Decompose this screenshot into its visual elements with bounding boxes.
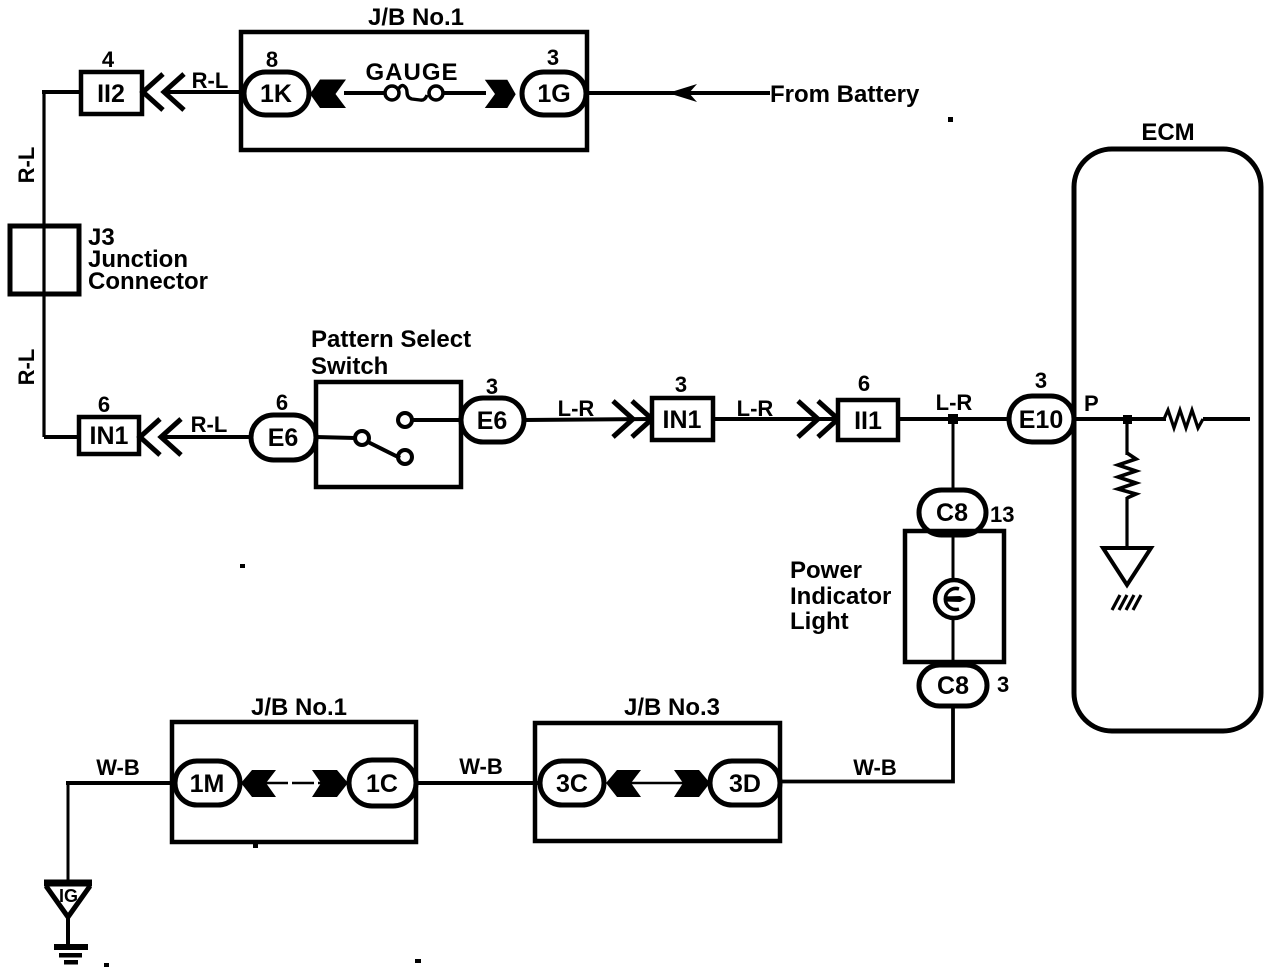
svg-text:L-R: L-R	[558, 396, 595, 421]
ground IG triangle	[44, 880, 92, 887]
switch contact upper	[398, 413, 412, 427]
svg-text:IG: IG	[59, 886, 78, 906]
wire fuse to arrow	[443, 91, 486, 95]
connector IN1 (middle)	[652, 398, 713, 440]
solid arrow left in J/B No.3	[606, 770, 641, 797]
node inside ECM	[1123, 415, 1132, 424]
svg-text:From Battery: From Battery	[770, 81, 920, 108]
wire junction down to C8	[952, 419, 955, 492]
power indicator light box	[905, 531, 1004, 662]
svg-text:3: 3	[1035, 368, 1047, 393]
wire lamp to C8	[952, 617, 955, 667]
female chevrons at II2	[143, 74, 163, 110]
svg-text:8: 8	[266, 47, 278, 72]
male chevrons into II1	[798, 401, 818, 437]
svg-text:6: 6	[98, 392, 110, 417]
svg-text:1M: 1M	[190, 770, 225, 798]
scan specks	[948, 117, 953, 122]
svg-text:GAUGE: GAUGE	[365, 59, 458, 86]
ground triangle in ECM	[1103, 548, 1151, 585]
svg-text:3D: 3D	[729, 770, 761, 798]
svg-text:4: 4	[102, 47, 115, 72]
svg-text:Switch: Switch	[311, 353, 388, 380]
svg-text:Connector: Connector	[88, 268, 208, 295]
switch common wire	[316, 437, 355, 438]
svg-text:3: 3	[547, 45, 559, 70]
svg-text:W-B: W-B	[96, 755, 140, 780]
wire down to IG ground	[67, 783, 70, 883]
svg-text:1C: 1C	[366, 770, 398, 798]
svg-text:Light: Light	[790, 608, 849, 635]
svg-text:3C: 3C	[556, 770, 588, 798]
terminal C8 (pin 13)	[919, 490, 986, 535]
svg-text:R-L: R-L	[14, 349, 39, 386]
svg-text:R-L: R-L	[192, 68, 229, 93]
svg-text:L-R: L-R	[936, 390, 973, 415]
terminal E6 (left)	[251, 415, 316, 460]
svg-text:R-L: R-L	[191, 412, 228, 437]
solid arrow right in J/B No.3	[674, 770, 710, 797]
terminal 1C	[349, 760, 416, 806]
wire R-L II2 to 1K	[166, 90, 246, 94]
wire ground to 1M	[66, 781, 176, 785]
terminal E6 (right)	[461, 398, 524, 442]
indicator lamp	[935, 580, 973, 618]
terminal E10	[1009, 396, 1074, 442]
pattern select switch box	[316, 382, 461, 487]
solid arrow left (to 1K)	[310, 80, 346, 109]
svg-text:Indicator: Indicator	[790, 583, 891, 610]
solid arrow right in J/B No.1	[312, 770, 348, 797]
svg-text:6: 6	[858, 371, 870, 396]
solid arrow right (to 1G)	[485, 80, 516, 108]
wire inside ECM	[1074, 417, 1166, 421]
svg-text:3: 3	[675, 372, 687, 397]
svg-text:E10: E10	[1019, 406, 1063, 434]
connector IN1 (left)	[79, 417, 139, 454]
terminal C8 (pin 3)	[919, 665, 987, 706]
svg-text:W-B: W-B	[853, 755, 897, 780]
svg-text:Power: Power	[790, 557, 862, 584]
wire to battery feed	[586, 91, 770, 95]
svg-text:II2: II2	[97, 80, 125, 108]
wire W-B 1C to 3C	[416, 781, 542, 785]
resistor horizontal in ECM	[1164, 410, 1203, 428]
wire to fuse	[344, 91, 386, 95]
terminal 3D	[710, 761, 780, 805]
svg-text:C8: C8	[936, 499, 968, 527]
svg-text:P: P	[1084, 391, 1099, 416]
male chevrons into IN1	[613, 401, 633, 437]
link wire	[630, 782, 684, 785]
resistor vertical in ECM	[1118, 453, 1136, 498]
switch output wire	[412, 418, 461, 422]
terminal 3C	[540, 761, 604, 805]
J/B No.1 (bottom) box	[172, 722, 416, 842]
svg-text:W-B: W-B	[459, 754, 503, 779]
terminal 1M	[175, 761, 240, 805]
connector II1	[838, 400, 898, 440]
ground stem	[66, 917, 70, 946]
svg-text:3: 3	[486, 374, 498, 399]
svg-text:6: 6	[276, 390, 288, 415]
svg-text:13: 13	[990, 502, 1014, 527]
svg-text:J/B No.1: J/B No.1	[368, 4, 464, 31]
terminal 1K	[244, 72, 309, 115]
solid arrow left in J/B No.1	[241, 770, 276, 797]
svg-text:ECM: ECM	[1141, 119, 1194, 146]
ground hatch in ECM	[1112, 595, 1120, 610]
svg-text:R-L: R-L	[14, 147, 39, 184]
female chevrons at IN1	[140, 419, 160, 455]
switch contact common	[355, 431, 369, 445]
junction connector J3	[10, 226, 79, 294]
junction node to indicator light	[948, 414, 958, 424]
ground bars	[54, 944, 88, 950]
svg-text:E6: E6	[477, 407, 508, 435]
wire R-L IN1 to E6	[163, 435, 253, 439]
svg-text:1G: 1G	[537, 80, 570, 108]
wire from II2 down-left to IN1 (R-L run)	[42, 90, 81, 94]
svg-text:1K: 1K	[260, 80, 292, 108]
J/B No.3 box	[535, 723, 780, 841]
svg-text:J/B No.1: J/B No.1	[251, 694, 347, 721]
connector II2	[81, 72, 142, 114]
wire L-R E6 to IN1	[524, 419, 654, 420]
wire to lamp	[952, 533, 955, 581]
switch contact lower	[398, 450, 412, 464]
terminal 1G	[522, 72, 586, 115]
wire C8 down to W-B run	[780, 706, 953, 782]
svg-text:J/B No.3: J/B No.3	[624, 694, 720, 721]
svg-text:II1: II1	[854, 407, 882, 435]
svg-text:E6: E6	[268, 424, 299, 452]
wire L-R IN1 to II1	[713, 417, 840, 421]
svg-text:IN1: IN1	[663, 406, 702, 434]
fuse GAUGE	[385, 86, 399, 100]
svg-text:IN1: IN1	[90, 422, 129, 450]
wire to pull-down resistor	[1125, 419, 1128, 455]
ECM box	[1074, 149, 1261, 731]
svg-text:C8: C8	[937, 672, 969, 700]
svg-text:3: 3	[997, 672, 1009, 697]
arrowhead from battery	[668, 84, 697, 102]
link wire	[266, 782, 322, 785]
svg-text:L-R: L-R	[737, 396, 774, 421]
switch blade	[368, 442, 400, 458]
svg-text:Pattern Select: Pattern Select	[311, 326, 471, 353]
J/B No.1 (top) box	[241, 32, 587, 150]
wire L-R II1 to E10	[898, 417, 1010, 421]
